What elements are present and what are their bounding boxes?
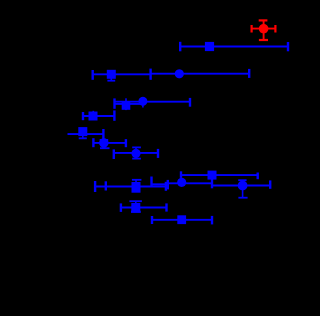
row7 y stem	[103, 139, 105, 148]
row10 y top cap	[129, 200, 142, 202]
row10 y bottom cap	[131, 211, 141, 213]
row9 left cap	[94, 181, 96, 192]
row4 upper errorbar line	[115, 101, 191, 103]
row3 square lower stem	[110, 78, 112, 81]
row6 right cap	[102, 129, 104, 139]
row5 right cap	[113, 110, 115, 120]
row3 square bottom cap	[107, 80, 115, 82]
row3 left errorbar line	[93, 73, 151, 75]
squareS marker	[208, 171, 217, 180]
row3 left cap	[91, 70, 93, 80]
row4 circle marker	[138, 97, 147, 106]
circleB y top cap	[238, 179, 246, 181]
circleB left cap	[211, 180, 213, 189]
row3 square marker	[107, 70, 116, 79]
circleB marker	[238, 181, 248, 191]
circleA errorbar line	[168, 182, 212, 184]
row10 errorbar line	[121, 207, 167, 209]
row9 right cap	[165, 182, 167, 191]
row5 square marker	[89, 112, 98, 121]
row8 circle marker	[131, 149, 140, 158]
red y top cap	[259, 19, 268, 21]
red x left cap	[251, 25, 253, 33]
row7 left cap	[92, 138, 94, 147]
row9 second cap	[105, 181, 107, 190]
row2 errorbar line	[180, 46, 288, 48]
row7 right cap	[125, 139, 127, 147]
row6 errorbar line	[68, 133, 104, 135]
circleB errorbar line	[212, 185, 270, 187]
row8 x errorbar line	[114, 152, 158, 154]
circleA marker	[177, 178, 186, 187]
row8 y bottom cap	[132, 158, 141, 160]
circleB y stem	[242, 180, 244, 197]
row4 circle lower stem	[142, 101, 144, 108]
row5 left cap	[82, 112, 84, 120]
row10 y stem	[135, 201, 137, 212]
row2 left cap	[179, 42, 181, 52]
row6 square bottom cap	[79, 137, 87, 139]
row4 shared left cap	[113, 98, 115, 108]
row6 square marker	[78, 127, 87, 136]
row11 errorbar line	[152, 219, 212, 221]
red y bottom cap	[259, 39, 268, 41]
row11 right cap	[211, 216, 213, 225]
row3 circle marker	[175, 69, 184, 78]
row9 square y bottom cap	[132, 191, 141, 193]
red y errorbar line	[263, 20, 265, 40]
row2 square marker	[205, 42, 214, 51]
row9 square y stem	[135, 180, 137, 192]
red circle marker	[259, 24, 269, 34]
row9 square y top cap	[132, 179, 142, 181]
red x right cap	[274, 25, 276, 33]
squareS errorbar line	[181, 174, 258, 176]
row4 square marker	[122, 101, 131, 110]
row10 right cap	[165, 203, 167, 211]
row3 right cap	[248, 69, 250, 78]
row10 left cap	[120, 203, 122, 212]
row7 y bottom cap	[100, 147, 110, 149]
row7 x errorbar line	[93, 142, 126, 144]
row5 square top nub	[92, 111, 94, 113]
row4 lower errorbar line	[115, 103, 141, 105]
row9 errorbar line	[95, 186, 166, 188]
squareS right cap	[257, 173, 259, 180]
row8 y top cap	[132, 146, 141, 148]
circleA left cap	[167, 180, 169, 190]
row9 mid cap	[150, 177, 152, 187]
row6 square lower stem	[82, 135, 84, 138]
circleB right cap	[269, 180, 271, 188]
row9 short bar segment	[152, 183, 166, 185]
squareS left cap	[180, 171, 182, 178]
row8 right cap	[157, 149, 159, 158]
row3 mid cap	[149, 69, 151, 80]
row11 square marker	[177, 215, 186, 224]
row3 right errorbar line	[151, 73, 250, 75]
row8 left cap	[113, 149, 115, 159]
row8 y stem	[135, 147, 137, 158]
row4 square y-stems	[125, 98, 127, 110]
circleB y bottom cap	[238, 197, 247, 199]
row9 square marker	[132, 182, 141, 191]
row10 square marker	[131, 203, 140, 212]
row4 right cap	[189, 98, 191, 107]
red x errorbar line	[252, 28, 276, 30]
row7 y top cap	[100, 139, 109, 141]
row2 right cap	[287, 42, 289, 51]
row11 left cap	[151, 216, 153, 224]
row5 errorbar line	[83, 115, 114, 117]
row7 circle marker	[99, 138, 109, 148]
